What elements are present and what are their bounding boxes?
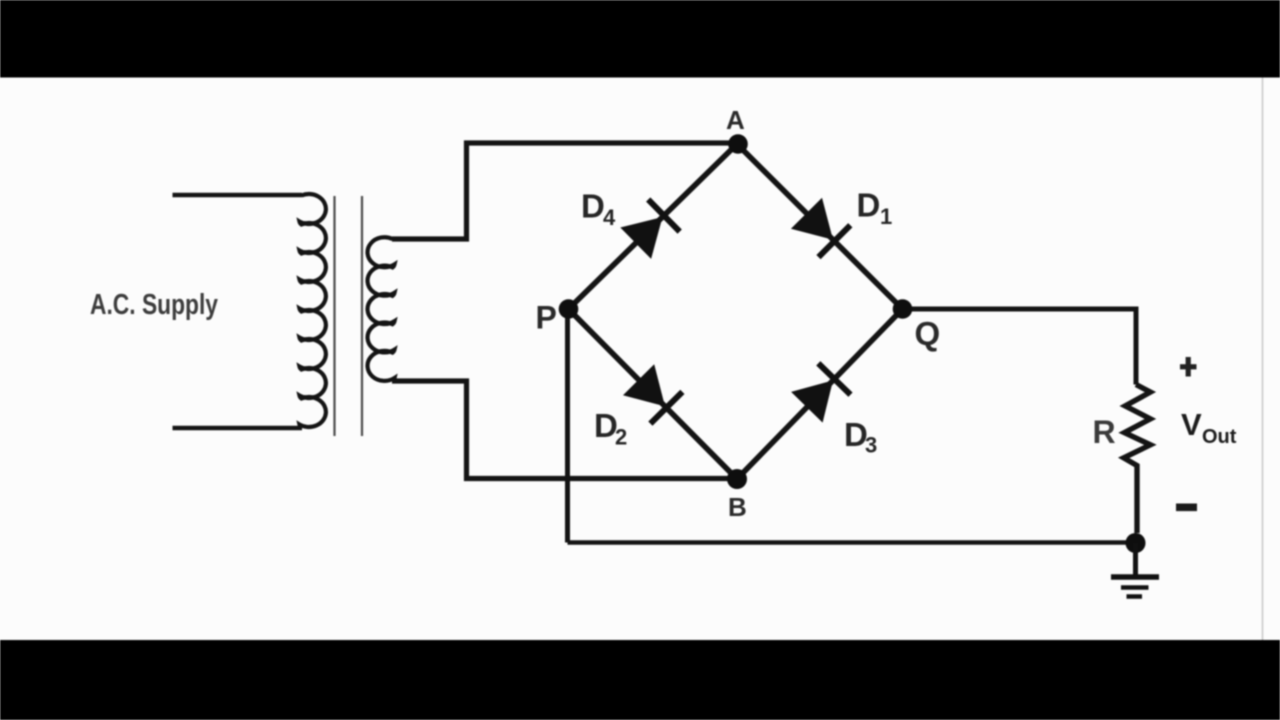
wire primary top lead [173, 193, 303, 198]
svg-text:R: R [1093, 414, 1116, 450]
bridge edge B-Q [737, 309, 903, 479]
transformer T1 primary winding [300, 194, 326, 427]
node A [728, 134, 748, 154]
diode D1 [791, 198, 850, 257]
bottom letterbox bar [0, 640, 1280, 720]
svg-text:4: 4 [603, 205, 616, 230]
node Q [893, 299, 913, 319]
resistor R [1124, 385, 1151, 534]
frame edge artifact line [1262, 77, 1264, 640]
node output junction [1126, 533, 1146, 553]
wire secondary bottom to node B [392, 381, 737, 479]
svg-text:V: V [1181, 407, 1202, 442]
svg-text:A: A [726, 105, 745, 135]
top letterbox bar [0, 0, 1280, 78]
svg-text:P: P [536, 300, 557, 336]
node P [559, 299, 579, 319]
transformer T1 core [333, 196, 335, 436]
label + polarity [1180, 357, 1197, 377]
diode D4 [620, 200, 679, 259]
diode D3 [791, 363, 850, 422]
svg-text:D: D [857, 187, 881, 224]
node B [727, 469, 747, 489]
svg-text:1: 1 [880, 204, 892, 229]
transformer T1 secondary winding [368, 237, 395, 381]
wire node P to bottom rail [565, 309, 570, 543]
label - polarity [1176, 504, 1197, 512]
diode D2 [623, 364, 682, 423]
svg-text:Q: Q [915, 315, 941, 352]
svg-text:B: B [728, 492, 747, 522]
ground [1111, 543, 1159, 597]
svg-text:D: D [581, 188, 605, 225]
svg-text:Out: Out [1202, 426, 1237, 448]
bridge edge A-Q [737, 144, 903, 309]
bridge edge P-B [569, 309, 738, 479]
wire node Q to resistor R [903, 309, 1137, 385]
bridge edge P-A [569, 144, 738, 309]
wire secondary top to node A [392, 143, 737, 239]
svg-text:A.C. Supply: A.C. Supply [90, 289, 218, 321]
svg-text:2: 2 [615, 425, 627, 450]
wire primary bottom lead [173, 426, 303, 431]
wire bottom rail to output junction [568, 540, 1136, 545]
svg-text:3: 3 [865, 433, 877, 458]
